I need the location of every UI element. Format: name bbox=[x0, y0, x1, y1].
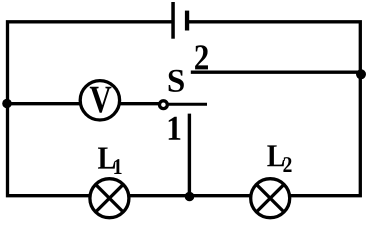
switch S blade bbox=[169, 103, 208, 106]
voltmeter U1 bbox=[80, 81, 119, 120]
battery B1 long plate bbox=[171, 2, 175, 39]
switch S pivot bbox=[160, 101, 168, 109]
wire contact 2 bbox=[191, 71, 362, 74]
lamp L2 bbox=[251, 179, 290, 218]
node C junction dot bottom bbox=[185, 192, 195, 202]
label 2 bbox=[195, 45, 208, 69]
wire outer loop (left, top, right, bottom) with battery gap bbox=[8, 22, 361, 196]
label L2 bbox=[267, 145, 291, 172]
lamp L1 bbox=[90, 179, 129, 218]
node A junction dot left bbox=[2, 99, 12, 109]
wire middle (voltmeter branch) bbox=[8, 102, 163, 105]
label L1 bbox=[98, 147, 122, 174]
label 1 bbox=[169, 117, 181, 140]
battery B1 short plate bbox=[185, 11, 189, 31]
node B junction dot right bbox=[356, 69, 366, 79]
wire contact 1 bbox=[188, 114, 191, 196]
label S bbox=[169, 70, 184, 92]
